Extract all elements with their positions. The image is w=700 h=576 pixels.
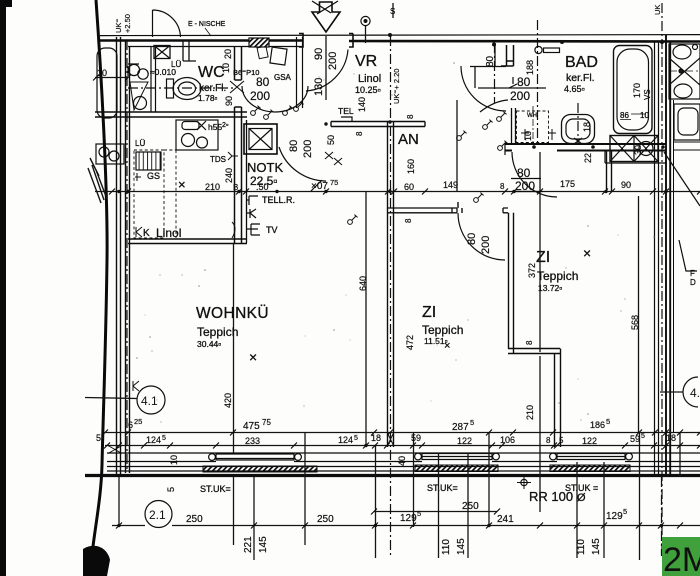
svg-text:640: 640: [358, 276, 368, 291]
wall: top exterior thick line: [100, 41, 700, 42]
BAD door dim line: [478, 87, 546, 89]
svg-text:8: 8: [406, 114, 415, 119]
wall: ZI2 L horizontal: [508, 349, 560, 354]
fixture: bath sink: [562, 115, 595, 144]
svg-text:10: 10: [640, 111, 649, 120]
svg-text:18: 18: [371, 433, 381, 443]
dim line y511 short: [374, 511, 497, 513]
svg-text:1.78▫: 1.78▫: [198, 93, 218, 103]
svg-text:20: 20: [223, 49, 233, 59]
fixture: bathtub: [614, 46, 653, 134]
svg-text:Teppich: Teppich: [422, 323, 463, 337]
entrance arrow: [312, 2, 340, 32]
svg-text:188: 188: [525, 60, 535, 75]
svg-text:18: 18: [666, 433, 676, 443]
wall: ZI1/ZI2 dividing wall vertical: [509, 213, 514, 354]
svg-text:25: 25: [134, 417, 142, 426]
fixture: kitchen TDS bracket: [228, 152, 238, 160]
svg-text:Ø: Ø: [577, 492, 586, 504]
svg-text:10: 10: [221, 63, 231, 73]
leader circle 4.1: [85, 398, 137, 399]
svg-text:200: 200: [302, 140, 314, 158]
svg-text:×: ×: [178, 177, 186, 192]
svg-text:250: 250: [186, 514, 203, 525]
svg-text:372: 372: [527, 263, 537, 278]
svg-text:80: 80: [517, 75, 531, 89]
svg-text:13.72▫: 13.72▫: [538, 283, 562, 293]
svg-text:TEL: TEL: [338, 106, 354, 116]
svg-text:145: 145: [258, 536, 269, 553]
svg-text:175: 175: [560, 179, 575, 189]
vertical extension lines bottom: [119, 36, 680, 560]
wall: entrance door jambs: [299, 34, 353, 48]
svg-text:221: 221: [243, 536, 254, 553]
svg-text:140: 140: [357, 97, 367, 112]
svg-text:210: 210: [525, 405, 535, 420]
svg-text:130: 130: [313, 78, 325, 96]
svg-text:122: 122: [582, 436, 597, 446]
svg-text:h55: h55: [208, 122, 222, 132]
vertical ext lines top: [366, 3, 496, 192]
fixture: kitchen K hook: [136, 227, 142, 237]
svg-text:122: 122: [457, 436, 472, 446]
fixture: middle toilet dashed: [517, 111, 549, 143]
door: E-Nische top left, leaf + arc: [153, 10, 181, 37]
svg-text:5: 5: [162, 435, 166, 442]
door: ZI1 arc: [458, 213, 505, 260]
axis: niche VR: [494, 43, 496, 103]
leader circle 4.x right: [660, 391, 683, 393]
fixture: LU shaft box WC: [154, 46, 170, 59]
svg-text:90: 90: [621, 180, 631, 190]
svg-text:5: 5: [417, 509, 421, 518]
svg-text:6: 6: [128, 420, 133, 430]
svg-text:90: 90: [224, 96, 234, 106]
svg-text:8: 8: [525, 340, 534, 345]
svg-text:5: 5: [470, 418, 474, 427]
svg-text:40: 40: [397, 456, 407, 466]
switches: [251, 106, 261, 116]
svg-text:129: 129: [400, 513, 417, 524]
svg-text:UK⁼: UK⁼: [114, 19, 123, 33]
svg-text:149: 149: [443, 180, 458, 190]
wall: kitchen bottom: [128, 239, 247, 244]
fixture: kitchen GS dashed box: [134, 150, 164, 238]
svg-text:233: 233: [245, 436, 260, 446]
svg-text:80: 80: [485, 55, 496, 67]
svg-text:4.65▫: 4.65▫: [564, 84, 585, 94]
svg-text:145: 145: [456, 538, 467, 555]
svg-text:GSA: GSA: [274, 73, 292, 82]
svg-text:472: 472: [405, 335, 415, 350]
svg-text:170: 170: [632, 83, 642, 98]
svg-text:60: 60: [404, 182, 414, 192]
svg-text:K: K: [143, 228, 150, 239]
svg-text:D: D: [690, 278, 696, 287]
svg-text:475: 475: [243, 421, 260, 432]
fixture: GSA unit: [270, 47, 287, 65]
svg-text:8: 8: [500, 182, 505, 191]
wall: right outside corridor line: [673, 100, 675, 432]
svg-text:59: 59: [630, 434, 640, 444]
wall: WOHNKU/ZI middle wall: [388, 122, 394, 447]
svg-text:568: 568: [630, 315, 640, 330]
svg-text:59: 59: [411, 433, 421, 443]
wall: NOTK shaft inner box with X: [249, 129, 272, 150]
wall: WC left wall: [151, 46, 156, 112]
window W2 frame: [422, 454, 492, 460]
svg-text:30.44▫: 30.44▫: [197, 339, 221, 349]
svg-text:250: 250: [462, 501, 479, 512]
fixture: FD leader: [679, 240, 697, 271]
fixture: left stove box circles: [96, 144, 124, 164]
svg-text:241: 241: [497, 514, 514, 525]
svg-text:2.1: 2.1: [149, 508, 166, 522]
svg-text:80: 80: [256, 75, 270, 89]
svg-text:4.: 4.: [690, 386, 700, 400]
axis: left party wall: [126, 40, 128, 470]
wall: below WC horizontal: [95, 112, 247, 117]
fixture: WC washer circles: [128, 64, 139, 75]
wall: AN top wall: [331, 122, 425, 127]
dash-dot axis lines: [127, 3, 662, 556]
svg-text:186: 186: [590, 420, 605, 430]
svg-text:VR: VR: [355, 53, 377, 70]
svg-text:2M: 2M: [663, 541, 700, 576]
axis: WC toilet horizontal: [128, 87, 234, 89]
scan artifact: diagonal scribbles: [88, 158, 107, 203]
svg-text:10: 10: [169, 455, 179, 465]
axis: BAD left: [537, 20, 539, 144]
wall: BAD door jamb: [501, 45, 514, 66]
fixture: shaft boxes below tub: [610, 136, 658, 162]
K mark above 4.1: [133, 381, 139, 391]
wall: corridor right wall piece: [297, 37, 303, 108]
svg-text:UK⁼+ 2.20: UK⁼+ 2.20: [392, 69, 401, 104]
svg-text:5: 5: [623, 507, 627, 516]
fixture: bath towel circle: [535, 46, 542, 53]
door: ZI2 arc: [512, 152, 557, 197]
wall: left party wall lines: [117, 37, 130, 476]
wall: ZI2 L vertical down: [555, 349, 561, 448]
svg-text:240: 240: [224, 168, 234, 183]
node circle 4.1: [137, 386, 165, 414]
svg-text:210: 210: [205, 182, 220, 192]
fixture: RR100 symbol: [517, 477, 531, 489]
dim line y432: [105, 432, 700, 434]
door: BAD arc: [461, 66, 506, 111]
svg-text:ZI: ZI: [536, 249, 550, 266]
svg-text:S: S: [390, 7, 395, 16]
dim line y525 full: [112, 525, 700, 527]
wall: BAD south wall: [505, 144, 666, 151]
svg-text:110: 110: [576, 539, 587, 555]
svg-text:129: 129: [606, 511, 623, 522]
svg-text:LÜ: LÜ: [135, 139, 145, 148]
svg-text:8: 8: [546, 436, 551, 445]
svg-text:18: 18: [582, 122, 592, 132]
node circle 4.x right edge: [683, 377, 698, 407]
fixture: kitchen dashed inner lines: [176, 120, 218, 238]
fixture: neighbour bathroom top right: [669, 44, 700, 99]
svg-text:75: 75: [262, 418, 271, 427]
svg-text:WH: WH: [527, 113, 537, 119]
svg-text:≈0.010: ≈0.010: [150, 67, 176, 77]
balcony slab thick line: [85, 474, 700, 477]
svg-text:5: 5: [96, 433, 101, 443]
svg-text:124: 124: [338, 435, 353, 445]
door: ZI1 jamb marks: [458, 202, 462, 213]
svg-text:22: 22: [583, 153, 593, 163]
door: corridor to WOHNKU arc (80/200): [242, 86, 308, 112]
window band outer lines: [107, 452, 700, 454]
wall: shaft wall right of ZI2: [607, 151, 612, 192]
door: middle toilet arc: [480, 100, 508, 112]
sill hatched bands: [203, 466, 317, 472]
svg-text:86: 86: [620, 111, 629, 120]
svg-text:10.25▫: 10.25▫: [355, 85, 381, 95]
scan artifact: bottom-left blob: [83, 546, 110, 576]
svg-text:WOHNKÜ: WOHNKÜ: [196, 304, 269, 322]
fixture: VR niche shelf: [470, 66, 506, 68]
svg-text:Linol: Linol: [358, 73, 381, 85]
door: WC right wall jambs: [235, 80, 242, 107]
svg-text:10: 10: [523, 131, 533, 141]
svg-text:VS: VS: [643, 89, 652, 100]
dim line y445: [105, 445, 700, 447]
WC width dim line: [95, 77, 128, 79]
svg-text:ST.UK=: ST.UK=: [427, 483, 458, 493]
fixture: neighbour sink right: [674, 104, 700, 140]
fixture: flue hatched rect on top wall: [249, 38, 269, 47]
svg-text:ker.Fl.: ker.Fl.: [566, 72, 595, 84]
svg-text:×: ×: [444, 340, 450, 352]
wall: AN bottom stub: [387, 208, 457, 213]
svg-text:AN: AN: [398, 131, 419, 148]
fixture: kitchen sink unit: [176, 120, 218, 150]
wall: right exterior wall lines: [655, 42, 659, 476]
svg-text:Linol: Linol: [156, 226, 181, 240]
window W1 frame: [216, 454, 294, 460]
svg-text:E - NISCHE: E - NISCHE: [188, 21, 226, 28]
svg-text:5: 5: [354, 435, 358, 442]
svg-text:50: 50: [326, 135, 336, 145]
svg-text:80: 80: [288, 140, 300, 152]
axis: sink vertical: [577, 103, 579, 144]
svg-text:5: 5: [641, 433, 645, 440]
svg-text:8: 8: [404, 218, 413, 223]
door: entrance arc: [306, 50, 348, 92]
svg-text:TDS: TDS: [210, 155, 226, 164]
svg-text:UK: UK: [653, 5, 662, 15]
svg-text:200: 200: [510, 89, 530, 103]
svg-text:124: 124: [146, 435, 161, 445]
svg-text:GS: GS: [147, 171, 160, 181]
axis: right wall: [661, 3, 663, 556]
svg-text:Teppich: Teppich: [197, 325, 238, 339]
svg-text:145: 145: [591, 538, 602, 555]
svg-text:200: 200: [327, 52, 339, 70]
svg-text:5: 5: [166, 487, 176, 492]
svg-text:110: 110: [441, 539, 452, 555]
main horizontal dim line mid: [95, 191, 700, 193]
svg-text:420: 420: [223, 393, 233, 408]
svg-text:250: 250: [317, 514, 334, 525]
svg-text:200: 200: [250, 89, 270, 103]
svg-text:×: ×: [249, 349, 257, 365]
svg-text:5: 5: [606, 417, 610, 426]
scan artifact: left black bar: [0, 0, 6, 576]
svg-text:4.1: 4.1: [141, 394, 158, 408]
fixture: WC toilet: [167, 79, 174, 98]
svg-text:200: 200: [480, 236, 492, 254]
axis: middle wall: [390, 36, 392, 556]
sill thin lines full width: [107, 467, 700, 472]
svg-text:B: B: [233, 183, 238, 192]
axis: kitchen axis: [661, 477, 663, 556]
svg-text:+2.50: +2.50: [123, 14, 132, 33]
svg-text:160: 160: [406, 159, 416, 174]
fixture: WC boiler box: [130, 82, 148, 110]
fixture: neighbour door leaf diagonal: [664, 152, 700, 206]
svg-text:TV: TV: [266, 225, 278, 235]
svg-text:2▫: 2▫: [222, 122, 228, 129]
svg-text:106: 106: [500, 435, 515, 445]
svg-text:80: 80: [466, 233, 478, 245]
svg-text:ST.UK =: ST.UK =: [565, 483, 598, 493]
svg-text:×: ×: [583, 245, 591, 261]
wall: WC/E-Nische inner line: [128, 46, 302, 48]
wall: middle toilet room left wall: [512, 108, 516, 144]
wall: WC/kitchen right wall: [235, 46, 242, 243]
svg-text:75: 75: [330, 178, 338, 187]
svg-text:.50: .50: [256, 182, 269, 192]
svg-text:BAD: BAD: [565, 54, 598, 71]
door: NOTK corridor arc: [279, 147, 326, 181]
fixture: kitchen fridge hatched: [136, 152, 161, 170]
svg-text:ST.UK=: ST.UK=: [200, 484, 231, 494]
svg-text:F: F: [690, 269, 695, 278]
svg-text:8: 8: [355, 131, 364, 136]
svg-text:ZI: ZI: [422, 304, 436, 321]
window W3 frame: [557, 454, 625, 460]
svg-text:NOTK: NOTK: [247, 160, 283, 175]
node circle 2.1: [145, 501, 172, 528]
svg-text:Teppich: Teppich: [537, 269, 578, 283]
svg-text:90: 90: [313, 48, 325, 60]
svg-text:287: 287: [452, 422, 469, 433]
wall: NOTK shaft outer box: [244, 124, 277, 154]
wall: ZI1 door jamb right: [503, 208, 508, 213]
svg-text:5: 5: [559, 436, 564, 445]
svg-text:TELL.R.: TELL.R.: [262, 195, 295, 205]
survey point circle top: [361, 16, 370, 25]
svg-text:30: 30: [633, 145, 643, 155]
fixture: left neighbour tub: [97, 48, 117, 118]
wall: top exterior thin line: [100, 35, 700, 36]
tick marks on dim lines: [93, 75, 700, 529]
svg-text:10: 10: [97, 68, 107, 78]
node dots: [117, 33, 667, 527]
scan artifact: curved fold line: [90, 0, 107, 576]
